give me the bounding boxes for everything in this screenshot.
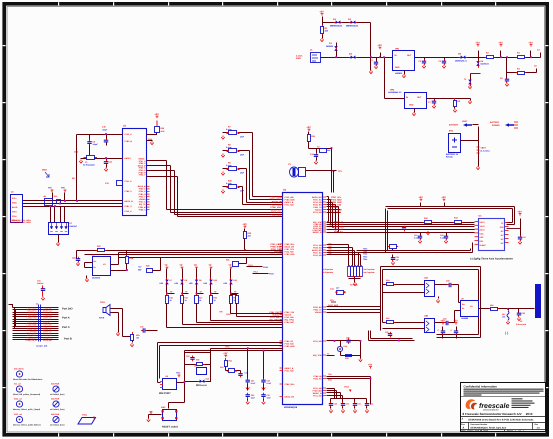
- svg-text:R17: R17: [502, 313, 505, 316]
- svg-text:+5V: +5V: [475, 41, 480, 44]
- svg-text:No Populated: No Populated: [83, 163, 95, 166]
- svg-text:MC33502: MC33502: [92, 277, 100, 280]
- svg-text:SCI2_sel: SCI2_sel: [14, 397, 22, 400]
- svg-text:TP15: TP15: [225, 346, 230, 349]
- svg-text:SCI3_sel: SCI3_sel: [14, 413, 22, 416]
- svg-text:R22: R22: [170, 297, 173, 300]
- svg-text:C32: C32: [370, 403, 373, 406]
- svg-text:TP22: TP22: [363, 253, 367, 256]
- svg-text:R30: R30: [196, 359, 199, 362]
- svg-text:R28: R28: [130, 257, 133, 260]
- svg-text:PTB5_SS_B: PTB5_SS_B: [26, 339, 37, 342]
- svg-text:IRQ_TP: IRQ_TP: [139, 203, 146, 206]
- svg-text:IRDA xcvr: IRDA xcvr: [196, 384, 207, 387]
- svg-text:TP: TP: [228, 264, 231, 267]
- svg-text:BKGD_: BKGD_: [12, 206, 19, 209]
- svg-text:w/ Default_(low): w/ Default_(low): [50, 423, 65, 426]
- svg-text:PTA1_KB: PTA1_KB: [43, 339, 52, 342]
- svg-text:IRQ_TPM1: IRQ_TPM1: [331, 211, 342, 214]
- svg-text:PTA2_KBI2 PTA3_KBI3: PTA2_KBI2 PTA3_KBI3: [10, 221, 31, 224]
- svg-text:BATTERY: BATTERY: [490, 121, 500, 124]
- svg-text:BKGD_M: BKGD_M: [125, 200, 134, 203]
- svg-text:POWER: POWER: [492, 124, 500, 127]
- svg-text:TP16: TP16: [176, 371, 180, 374]
- svg-text:+5V: +5V: [306, 126, 311, 129]
- svg-text:PTB0_R: PTB0_R: [139, 193, 147, 196]
- svg-text:PTB0_RXD: PTB0_RXD: [285, 253, 296, 256]
- svg-text:U4A: U4A: [424, 277, 429, 280]
- svg-text:D7: D7: [170, 279, 172, 282]
- svg-text:TP9: TP9: [219, 311, 222, 314]
- svg-text:Wired_OR_pullup_(Jumpered): Wired_OR_pullup_(Jumpered): [13, 393, 41, 396]
- svg-text:IRQ_TPM: IRQ_TPM: [313, 354, 322, 357]
- svg-text:ZOUT: ZOUT: [480, 229, 486, 232]
- svg-text:C30: C30: [346, 403, 349, 406]
- svg-text:PTB5_S: PTB5_S: [139, 208, 147, 211]
- svg-text:Wired-OR mode Push/Backslash: Wired-OR mode Push/Backslash: [13, 378, 43, 381]
- svg-text:KBI.PWR: KBI.PWR: [51, 382, 60, 385]
- svg-text:100: 100: [136, 337, 139, 340]
- svg-text:PTB3_MOS: PTB3_MOS: [285, 345, 296, 348]
- svg-text:Renata: Renata: [446, 156, 454, 159]
- svg-text:R29: R29: [136, 334, 139, 337]
- svg-text:R24: R24: [199, 297, 202, 300]
- svg-text:Port A: Port A: [62, 317, 70, 320]
- svg-text:LM2931: LM2931: [395, 72, 403, 75]
- svg-text:C23: C23: [186, 355, 189, 358]
- svg-text:PTB3_M: PTB3_M: [125, 140, 133, 143]
- svg-text:PTA1_KBI: PTA1_KBI: [285, 204, 294, 207]
- svg-text:TP13: TP13: [248, 264, 253, 267]
- svg-text:IN-: IN-: [94, 266, 97, 269]
- svg-text:No Populate: No Populate: [322, 268, 333, 271]
- svg-text:A: A: [463, 426, 465, 429]
- svg-text:Size: Size: [461, 423, 465, 426]
- svg-text:TP24: TP24: [363, 258, 367, 261]
- svg-text:TP23: TP23: [363, 255, 367, 258]
- svg-text:VBAT: VBAT: [481, 147, 487, 150]
- svg-text:VSSA: VSSA: [344, 386, 350, 389]
- svg-text:PTA0_K: PTA0_K: [125, 133, 133, 136]
- svg-text:+5V: +5V: [319, 10, 324, 13]
- svg-text:C15: C15: [414, 234, 417, 237]
- svg-text:PWR: PWR: [296, 57, 301, 60]
- svg-text:w/ Default_(low): w/ Default_(low): [50, 393, 65, 396]
- svg-text:VDD: VDD: [480, 232, 485, 235]
- svg-text:TP: TP: [208, 264, 211, 267]
- svg-text:KBI.PWR: KBI.PWR: [51, 413, 60, 416]
- svg-text:Memory_Select_pullB_(Select): Memory_Select_pullB_(Select): [13, 423, 41, 426]
- svg-text:PTB4_M: PTB4_M: [138, 206, 146, 209]
- svg-text:PTB6_S: PTB6_S: [125, 190, 133, 193]
- svg-text:DEMO9S08QG8_RevB_Apr1.Sch: DEMO9S08QG8_RevB_Apr1.Sch: [471, 426, 507, 429]
- svg-text:XOUT: XOUT: [480, 221, 486, 224]
- svg-text:Document Number: Document Number: [471, 423, 488, 426]
- svg-text:BAV99LT1: BAV99LT1: [481, 63, 490, 66]
- svg-text:PCB1: PCB1: [82, 414, 87, 417]
- svg-text:PTB1_T: PTB1_T: [139, 195, 147, 198]
- svg-text:Port C: Port C: [62, 326, 70, 329]
- svg-text:D9: D9: [199, 279, 201, 282]
- svg-text:PTB6: PTB6: [263, 266, 268, 269]
- svg-text:RESET switch: RESET switch: [162, 425, 179, 428]
- svg-text:PTB7_SCL: PTB7_SCL: [334, 231, 345, 234]
- svg-text:+5V: +5V: [517, 210, 522, 213]
- svg-text:PTB7_SCL: PTB7_SCL: [271, 211, 282, 214]
- svg-text:GS2: GS2: [500, 226, 504, 229]
- svg-text:TP10: TP10: [226, 313, 231, 316]
- svg-text:No Populate: No Populate: [364, 271, 375, 274]
- svg-text:100pF: 100pF: [102, 128, 108, 131]
- svg-text:LM3480IM3-3.3: LM3480IM3-3.3: [388, 91, 401, 94]
- svg-text:KBI.PWR: KBI.PWR: [51, 397, 60, 400]
- svg-text:PTA1_KBI: PTA1_KBI: [285, 370, 294, 373]
- svg-text:R33: R33: [54, 195, 57, 198]
- svg-text:PTA3_KB: PTA3_KB: [313, 340, 322, 343]
- svg-text:U8: U8: [194, 365, 196, 368]
- svg-text:No Populate: No Populate: [322, 271, 333, 274]
- svg-text:+5V: +5V: [453, 319, 458, 322]
- svg-text:RESET_: RESET_: [125, 157, 133, 160]
- svg-text:GND: GND: [395, 66, 400, 69]
- svg-text:8 Freescale Semiconductor Rese: 8 Freescale Semiconductor Research A/V 2…: [463, 412, 533, 416]
- svg-text:VDDAD: VDDAD: [315, 311, 322, 314]
- svg-text:Confidential Information: Confidential Information: [464, 384, 498, 388]
- svg-text:PTA2_K: PTA2_K: [139, 190, 146, 193]
- svg-text:R16: R16: [490, 304, 493, 307]
- svg-text:MBR0520LT1: MBR0520LT1: [330, 25, 343, 28]
- svg-text:PTB7: PTB7: [269, 273, 274, 276]
- svg-text:Port DIO: Port DIO: [62, 308, 73, 311]
- svg-text:C31: C31: [358, 403, 361, 406]
- svg-text:MC9S08QG8: MC9S08QG8: [284, 406, 298, 409]
- svg-text:2.1mm: 2.1mm: [296, 55, 303, 58]
- svg-text:PTB1_T: PTB1_T: [139, 174, 147, 177]
- svg-text:C17: C17: [523, 236, 526, 239]
- svg-text:BKGD_M: BKGD_M: [138, 185, 146, 188]
- svg-text:C28: C28: [346, 337, 349, 340]
- svg-text:TP: TP: [179, 264, 182, 267]
- svg-text:C29: C29: [334, 403, 337, 406]
- svg-text:Jumper_DIO: Jumper_DIO: [36, 345, 48, 348]
- svg-text:RESET_B: RESET_B: [313, 231, 322, 234]
- svg-text:Sheet 1 of 1: Sheet 1 of 1: [507, 430, 525, 433]
- svg-text:KBI_INT04: KBI_INT04: [14, 367, 24, 370]
- svg-text:C33: C33: [385, 331, 388, 334]
- svg-text:10K: 10K: [325, 30, 329, 33]
- svg-text:+5V: +5V: [528, 41, 533, 44]
- svg-text:PTB6_SDA: PTB6_SDA: [285, 383, 296, 386]
- svg-text:+5V: +5V: [223, 352, 228, 355]
- svg-text:SCI_sel: SCI_sel: [14, 382, 21, 385]
- svg-text:C22: C22: [72, 257, 75, 260]
- svg-text:NoGnd: NoGnd: [37, 282, 44, 285]
- svg-text:TP: TP: [164, 264, 167, 267]
- svg-text:BKGD_MS: BKGD_MS: [285, 396, 295, 399]
- svg-text:+5V: +5V: [368, 363, 373, 366]
- svg-text:SLEEP: SLEEP: [480, 244, 487, 247]
- svg-text:PTB7_S: PTB7_S: [139, 188, 147, 191]
- svg-text:R15: R15: [386, 317, 389, 320]
- svg-text:KEYPAD: KEYPAD: [350, 284, 358, 287]
- svg-text:PTB6_SDA: PTB6_SDA: [271, 206, 282, 209]
- svg-text:IN+: IN+: [462, 303, 465, 306]
- svg-text:100pF: 100pF: [93, 143, 99, 146]
- svg-text:Memory_Select_pullA_(Jmpd): Memory_Select_pullA_(Jmpd): [13, 408, 40, 411]
- svg-text:+5V: +5V: [154, 113, 159, 116]
- svg-text:D13: D13: [220, 366, 223, 369]
- svg-text:GREEN: GREEN: [326, 45, 334, 48]
- svg-text:LM4889: LM4889: [461, 317, 468, 320]
- svg-text:R26: R26: [146, 265, 149, 268]
- svg-text:VBAT: VBAT: [462, 120, 468, 123]
- svg-text:PTB3_MOS: PTB3_MOS: [328, 304, 339, 307]
- svg-text:R21: R21: [226, 259, 229, 262]
- svg-text:SMF05C: SMF05C: [70, 225, 78, 228]
- svg-text:GS1: GS1: [480, 240, 484, 243]
- svg-text:No Populate: No Populate: [364, 268, 375, 271]
- svg-text:PTA2_KB: PTA2_KB: [313, 254, 322, 257]
- svg-text:YOUT: YOUT: [480, 225, 486, 228]
- svg-text:D8: D8: [185, 279, 187, 282]
- svg-text:PTA3_KB: PTA3_KB: [313, 211, 322, 214]
- svg-text:Date: Friday, April 08, 2010: Date: Friday, April 08, 2010: [461, 430, 489, 433]
- svg-text:C18: C18: [446, 280, 449, 283]
- svg-text:4.7K: 4.7K: [161, 130, 166, 133]
- svg-text:PTB5_SS: PTB5_SS: [313, 378, 322, 381]
- svg-text:PTA3_K: PTA3_K: [139, 201, 146, 204]
- svg-text:SW1: SW1: [42, 169, 48, 172]
- svg-text:MBR0520LT1: MBR0520LT1: [455, 60, 467, 63]
- svg-text:PTA2_KBI2: PTA2_KBI2: [270, 214, 282, 217]
- svg-text:BKGD_MS: BKGD_MS: [271, 209, 282, 212]
- svg-text:R32: R32: [345, 357, 348, 360]
- svg-text:C20: C20: [522, 312, 525, 315]
- svg-text:±1.5g/6g Three Axis Accelerome: ±1.5g/6g Three Axis Accelerometer: [470, 258, 513, 261]
- svg-text:C35: C35: [140, 326, 143, 329]
- svg-text:(3.3 volts): (3.3 volts): [481, 150, 490, 153]
- svg-text:+5V: +5V: [440, 319, 445, 322]
- svg-text:PTA1_K: PTA1_K: [125, 180, 133, 183]
- svg-text:+5V: +5V: [498, 41, 503, 44]
- svg-text:Port B: Port B: [64, 338, 72, 341]
- svg-text:SPKR: SPKR: [99, 317, 105, 320]
- svg-text:+5V: +5V: [242, 223, 247, 226]
- svg-text:+5V: +5V: [377, 44, 382, 47]
- svg-text:R23: R23: [185, 297, 188, 300]
- svg-text:+5V: +5V: [441, 196, 446, 199]
- svg-text:BATTERY: BATTERY: [449, 124, 459, 127]
- svg-text:IN+: IN+: [94, 260, 97, 263]
- svg-text:R31: R31: [229, 360, 232, 363]
- svg-text:D12: D12: [206, 378, 209, 381]
- svg-text:PTB4_MIS: PTB4_MIS: [285, 321, 295, 324]
- svg-text:D11: D11: [234, 279, 237, 282]
- svg-text:+5V: +5V: [418, 196, 423, 199]
- svg-text:w/ Default_(low): w/ Default_(low): [50, 408, 65, 411]
- svg-text:GND: GND: [148, 138, 153, 141]
- svg-text:IN-: IN-: [462, 307, 465, 310]
- svg-text:IRM PORT: IRM PORT: [159, 392, 171, 395]
- svg-text:U4B: U4B: [424, 315, 429, 318]
- svg-text:PTA2_K: PTA2_K: [125, 210, 133, 213]
- svg-text:MBR0520LT1: MBR0520LT1: [346, 25, 359, 28]
- svg-text:DEMO9S08 Demo Board Rev B PCB: DEMO9S08 Demo Board Rev B PCB D.06 Main …: [468, 418, 534, 421]
- svg-text:GND: GND: [409, 104, 414, 107]
- svg-text:C16: C16: [440, 234, 443, 237]
- svg-text:R25: R25: [214, 297, 217, 300]
- svg-text:VDDAD: VDDAD: [139, 198, 146, 201]
- svg-text:PTA1_KB: PTA1_KB: [313, 395, 322, 398]
- svg-text:3.5mm jack: 3.5mm jack: [516, 323, 527, 326]
- svg-text:PTB7_S: PTB7_S: [125, 205, 133, 208]
- svg-text:TP: TP: [194, 264, 197, 267]
- svg-text:D10: D10: [214, 279, 217, 282]
- svg-text:GND: GND: [74, 151, 79, 154]
